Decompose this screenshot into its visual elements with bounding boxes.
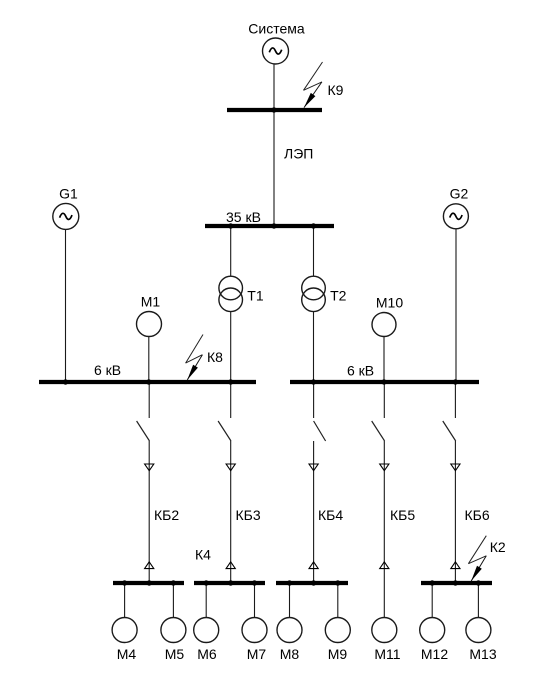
svg-text:М8: М8 [280,646,300,662]
svg-text:М10: М10 [376,295,403,311]
svg-text:М4: М4 [117,646,137,662]
svg-text:КБ6: КБ6 [465,507,490,523]
svg-text:КБ5: КБ5 [390,507,415,523]
svg-text:К2: К2 [490,539,506,555]
svg-text:T2: T2 [330,288,347,304]
svg-text:К9: К9 [328,82,344,98]
svg-text:T1: T1 [247,288,264,304]
svg-text:6 кВ: 6 кВ [94,362,121,378]
svg-text:М12: М12 [421,646,448,662]
svg-text:М11: М11 [374,646,400,662]
svg-text:G2: G2 [450,186,469,202]
svg-text:М9: М9 [328,646,348,662]
svg-text:6 кВ: 6 кВ [347,363,374,379]
svg-text:ЛЭП: ЛЭП [284,146,313,162]
svg-text:Система: Система [248,21,305,37]
svg-text:М7: М7 [247,646,267,662]
svg-text:К4: К4 [195,547,211,563]
svg-text:КБ4: КБ4 [318,507,343,523]
svg-text:М1: М1 [141,294,161,310]
svg-text:М13: М13 [469,646,496,662]
svg-text:К8: К8 [207,349,223,365]
svg-text:КБ2: КБ2 [154,507,179,523]
svg-text:М6: М6 [197,646,217,662]
svg-text:G1: G1 [59,186,78,202]
svg-text:35 кВ: 35 кВ [226,209,261,225]
svg-text:М5: М5 [165,646,185,662]
svg-text:КБ3: КБ3 [236,507,261,523]
